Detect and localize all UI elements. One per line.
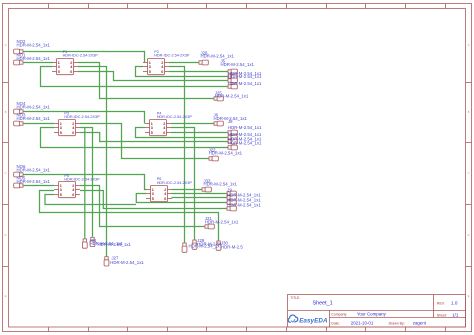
svg-text:5: 5 [58,70,60,74]
svg-text:REV:: REV: [437,301,445,305]
svg-text:Sheet:: Sheet: [437,313,447,317]
svg-text:EasyEDA: EasyEDA [299,318,328,325]
svg-text:TITLE:: TITLE: [291,296,301,300]
svg-text:6: 6 [163,131,165,135]
svg-text:Company:: Company: [331,312,347,316]
svg-text:Sheet_1: Sheet_1 [313,300,333,306]
svg-text:HDR-M-2.54_1x1: HDR-M-2.54_1x1 [17,168,51,173]
svg-text:HDR-M-2.54_1x1: HDR-M-2.54_1x1 [204,182,238,187]
svg-text:HDR-IDC-2.54-2X3P: HDR-IDC-2.54-2X3P [154,54,190,58]
svg-text:3: 3 [151,126,153,130]
svg-text:1/1: 1/1 [452,313,459,318]
svg-text:HDR-M-2.54_1x1: HDR-M-2.54_1x1 [209,151,243,156]
svg-text:HDR-M-2.54_1x1: HDR-M-2.54_1x1 [17,104,51,109]
svg-text:6: 6 [161,70,163,74]
svg-text:HDR-M-2.54_1x1: HDR-M-2.54_1x1 [228,74,262,79]
svg-text:HDR-M-2.54_1x1: HDR-M-2.54_1x1 [215,94,249,99]
svg-text:3: 3 [152,192,154,196]
svg-text:Date:: Date: [331,321,339,325]
svg-text:HDR-M-2.5: HDR-M-2.5 [221,244,243,249]
svg-text:HDR-IDC-2.54-2X3P: HDR-IDC-2.54-2X3P [63,54,99,58]
svg-text:D: D [5,234,7,237]
svg-text:6: 6 [70,70,72,74]
svg-text:Your Company: Your Company [357,312,387,317]
svg-text:3: 3 [60,126,62,130]
svg-text:HDR-M-2.54_1x1: HDR-M-2.54_1x1 [98,242,132,247]
svg-text:C: C [5,172,7,175]
svg-text:6: 6 [72,193,74,197]
svg-text:HDR-IDC-2.54-2X3P: HDR-IDC-2.54-2X3P [64,178,100,182]
svg-text:HDR-M-2.54_1x1: HDR-M-2.54_1x1 [201,54,235,59]
svg-text:HDR-IDC-2.54-2X3P: HDR-IDC-2.54-2X3P [157,181,193,185]
svg-text:5: 5 [60,193,62,197]
svg-text:6: 6 [72,131,74,135]
svg-text:5: 5 [149,70,151,74]
svg-text:HDR-IDC-2.54-2X3P: HDR-IDC-2.54-2X3P [64,115,100,119]
svg-text:J8: J8 [228,119,233,124]
svg-text:HDR-M-2.54_1x1: HDR-M-2.54_1x1 [227,203,261,208]
svg-text:5: 5 [152,197,154,201]
svg-text:3: 3 [58,65,60,69]
svg-text:HDR-M-2.54_1x1: HDR-M-2.54_1x1 [221,62,255,67]
svg-text:6: 6 [164,197,166,201]
svg-text:HDR-M-2.54_1x1: HDR-M-2.54_1x1 [17,179,51,184]
svg-text:1.0: 1.0 [451,301,458,306]
svg-text:HDR-M-2.54_1x1: HDR-M-2.54_1x1 [17,42,51,47]
svg-text:D: D [468,234,470,237]
svg-text:5: 5 [60,131,62,135]
svg-text:HDR-M-2.54_1x1: HDR-M-2.54_1x1 [228,125,262,130]
svg-text:3: 3 [149,65,151,69]
svg-text:HDR-M-2.54_1x1: HDR-M-2.54_1x1 [17,116,51,121]
svg-text:HDR-M-2.54_1x: HDR-M-2.54_1x [189,244,221,249]
svg-text:HDR-M-2.54_1x1: HDR-M-2.54_1x1 [17,56,51,61]
svg-text:HDR-M-2.54_1x1: HDR-M-2.54_1x1 [228,81,262,86]
svg-text:HDR-M-2.54_1x1: HDR-M-2.54_1x1 [228,141,262,146]
svg-text:HDR-M-2.54_1x1: HDR-M-2.54_1x1 [205,220,239,225]
svg-text:HDR-IDC-2.54-2X3P: HDR-IDC-2.54-2X3P [157,115,193,119]
svg-text:5: 5 [151,131,153,135]
svg-text:C: C [468,172,470,175]
svg-text:zagent: zagent [413,321,427,326]
svg-text:HDR-M-2.54_1x1: HDR-M-2.54_1x1 [110,260,144,265]
svg-text:3: 3 [60,188,62,192]
svg-text:2021-10-01: 2021-10-01 [351,321,374,326]
svg-text:Drawn By:: Drawn By: [389,321,405,325]
